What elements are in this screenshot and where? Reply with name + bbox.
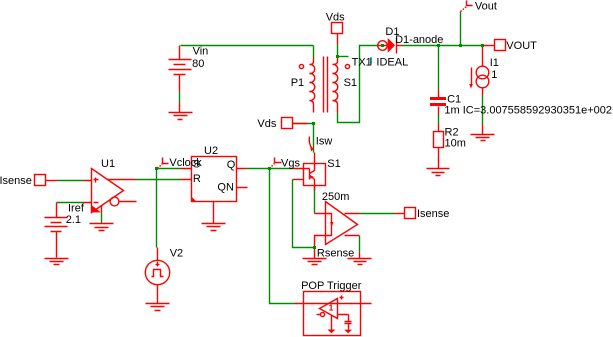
svg-text:U1: U1 bbox=[101, 158, 115, 170]
svg-text:POP Trigger: POP Trigger bbox=[301, 280, 362, 292]
svg-text:TX1: TX1 bbox=[352, 56, 372, 68]
svg-text:Vin: Vin bbox=[193, 46, 209, 58]
svg-text:Isense: Isense bbox=[0, 175, 32, 187]
svg-text:D1-anode: D1-anode bbox=[395, 34, 443, 46]
svg-text:Isense: Isense bbox=[417, 208, 449, 220]
svg-text:V2: V2 bbox=[170, 247, 183, 259]
svg-text:P1: P1 bbox=[291, 77, 304, 89]
svg-text:1: 1 bbox=[329, 304, 334, 313]
svg-text:Vds: Vds bbox=[257, 118, 276, 130]
svg-text:VOUT: VOUT bbox=[506, 40, 537, 52]
svg-text:1: 1 bbox=[491, 69, 497, 81]
svg-text:IDEAL: IDEAL bbox=[376, 56, 408, 68]
svg-text:S1: S1 bbox=[344, 77, 357, 89]
svg-text:Rsense: Rsense bbox=[317, 247, 354, 259]
svg-text:10m: 10m bbox=[445, 137, 466, 149]
svg-text:Vout: Vout bbox=[475, 1, 497, 13]
svg-text:I1: I1 bbox=[490, 57, 499, 69]
svg-text:Vgs: Vgs bbox=[281, 157, 300, 169]
svg-text:80: 80 bbox=[192, 58, 204, 70]
svg-text:QN: QN bbox=[217, 182, 234, 194]
svg-text:2.1: 2.1 bbox=[66, 214, 81, 226]
svg-text:R: R bbox=[193, 173, 201, 185]
svg-text:Vds: Vds bbox=[326, 12, 345, 24]
svg-text:U2: U2 bbox=[204, 145, 218, 157]
svg-text:1m IC=3.007558592930351e+002: 1m IC=3.007558592930351e+002 bbox=[444, 104, 612, 116]
svg-text:250m: 250m bbox=[322, 191, 350, 203]
svg-text:Vclock: Vclock bbox=[169, 157, 202, 169]
svg-text:Isw: Isw bbox=[316, 135, 333, 147]
svg-text:S1: S1 bbox=[327, 158, 340, 170]
svg-text:Iref: Iref bbox=[68, 202, 85, 214]
svg-text:Q: Q bbox=[227, 159, 236, 171]
